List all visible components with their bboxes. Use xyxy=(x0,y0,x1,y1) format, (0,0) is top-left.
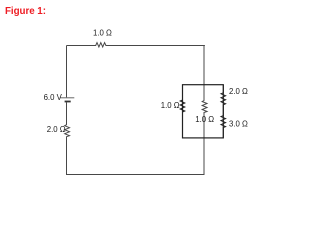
svg-text:2.0 Ω: 2.0 Ω xyxy=(229,87,248,96)
svg-text:1.0 Ω: 1.0 Ω xyxy=(195,115,214,124)
svg-text:2.0 Ω: 2.0 Ω xyxy=(47,125,66,134)
svg-text:6.0 V: 6.0 V xyxy=(44,93,63,102)
svg-text:Figure 1:: Figure 1: xyxy=(5,6,46,17)
svg-text:1.0 Ω: 1.0 Ω xyxy=(93,29,112,38)
svg-text:3.0 Ω: 3.0 Ω xyxy=(229,119,248,128)
svg-text:1.0 Ω: 1.0 Ω xyxy=(161,101,180,110)
